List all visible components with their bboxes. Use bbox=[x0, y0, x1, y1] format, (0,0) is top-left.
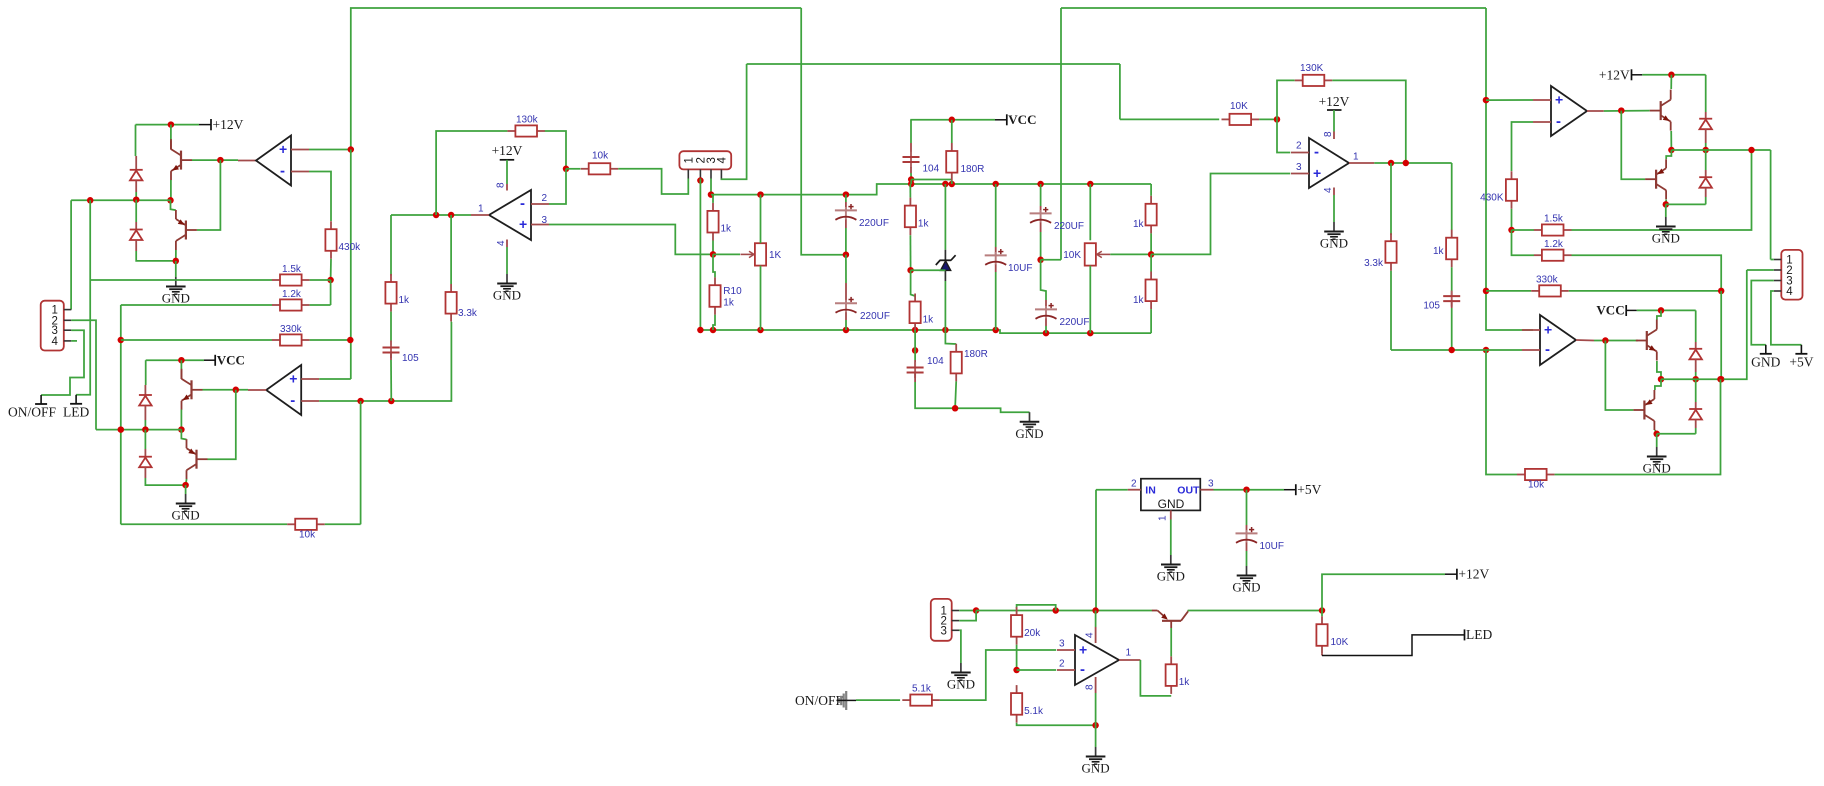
transistor Q6 bbox=[1645, 159, 1666, 199]
diode D6 bbox=[1699, 177, 1712, 188]
wire bbox=[1140, 660, 1171, 696]
svg-text:4: 4 bbox=[1084, 632, 1095, 638]
svg-text:180R: 180R bbox=[961, 164, 985, 175]
resistor 3.3k bbox=[446, 284, 478, 322]
op-amp U2A bbox=[489, 190, 549, 240]
capacitor 220UF lead bbox=[845, 202, 847, 210]
ground bbox=[1015, 412, 1043, 441]
capacitor 220UF bbox=[835, 204, 889, 229]
wire bbox=[330, 259, 332, 280]
junction bbox=[843, 251, 850, 258]
wire bbox=[185, 485, 187, 494]
wire bbox=[915, 382, 1029, 412]
svg-text:105: 105 bbox=[1423, 301, 1440, 312]
wire bbox=[856, 699, 900, 701]
resistor 180R bbox=[946, 143, 957, 181]
ground bbox=[1643, 447, 1671, 476]
wire bbox=[909, 184, 911, 198]
diode D5 lead bbox=[1705, 129, 1707, 143]
junction bbox=[1388, 160, 1395, 167]
wire bbox=[135, 192, 137, 200]
diode D6 lead bbox=[1705, 170, 1707, 177]
transistor Q5 bbox=[1650, 90, 1671, 131]
resistor 1k bbox=[905, 198, 930, 236]
svg-text:1k: 1k bbox=[721, 224, 733, 235]
wire bbox=[171, 200, 176, 210]
op-amp U1B output lead bbox=[248, 389, 266, 391]
svg-text:VCC: VCC bbox=[1596, 302, 1624, 317]
wire bbox=[41, 330, 84, 395]
junction bbox=[912, 347, 919, 354]
resistor 20k bbox=[1011, 607, 1041, 645]
wire bbox=[1321, 611, 1323, 617]
diode D4 lead bbox=[144, 449, 146, 457]
junction bbox=[168, 121, 175, 128]
op-amp U2A pin labels bbox=[478, 193, 548, 226]
capacitor 105 bbox=[383, 342, 420, 364]
wire bbox=[1150, 309, 1152, 333]
wire bbox=[1605, 341, 1633, 411]
resistor 1k bbox=[1146, 196, 1157, 234]
ground bbox=[1082, 747, 1110, 776]
transistor Q3 collector bbox=[180, 371, 182, 380]
resistor 1k bbox=[910, 294, 935, 332]
diode D7 bbox=[1689, 349, 1702, 360]
wire bbox=[545, 131, 566, 169]
wire bbox=[1770, 150, 1772, 260]
svg-text:+12V: +12V bbox=[1458, 567, 1489, 582]
capacitor 220UF lead bbox=[845, 312, 847, 320]
ground bbox=[162, 277, 190, 306]
wire bbox=[121, 304, 272, 306]
wire bbox=[1486, 8, 1533, 330]
junction bbox=[1748, 147, 1755, 154]
wire bbox=[1391, 349, 1522, 351]
wire bbox=[180, 360, 182, 370]
net flag +12V bbox=[199, 117, 244, 132]
capacitor 105 lead bbox=[390, 353, 392, 361]
wire bbox=[1747, 269, 1774, 271]
wire bbox=[90, 279, 272, 281]
wire bbox=[1511, 209, 1513, 230]
junction bbox=[178, 426, 185, 433]
wire bbox=[1486, 99, 1533, 101]
wire bbox=[1096, 489, 1128, 491]
op-amp U1B + input wire bbox=[319, 378, 351, 380]
svg-text:1.2k: 1.2k bbox=[282, 289, 302, 300]
wire bbox=[192, 159, 238, 161]
junction bbox=[942, 181, 949, 188]
wire bbox=[1040, 184, 1042, 206]
svg-text:GND: GND bbox=[1082, 761, 1110, 776]
wire bbox=[1170, 520, 1172, 556]
svg-text:20k: 20k bbox=[1024, 628, 1041, 639]
resistor 180R bbox=[951, 344, 962, 382]
wire bbox=[96, 429, 181, 431]
svg-text:3: 3 bbox=[542, 215, 548, 226]
wire bbox=[1572, 255, 1722, 291]
svg-text:220UF: 220UF bbox=[1054, 221, 1084, 232]
op-amp U1A - input wire bbox=[309, 172, 331, 222]
junction bbox=[1319, 607, 1326, 614]
svg-text:VCC: VCC bbox=[1008, 112, 1036, 127]
label 10K bbox=[1331, 637, 1349, 648]
wire bbox=[1661, 270, 1747, 379]
wire bbox=[1390, 271, 1392, 350]
svg-text:1: 1 bbox=[1126, 648, 1132, 659]
op-amp U3A output lead bbox=[1587, 110, 1604, 112]
wire bbox=[1089, 184, 1091, 240]
junction bbox=[1037, 257, 1044, 264]
op-amp U5 output lead bbox=[1119, 659, 1140, 661]
wire bbox=[1095, 725, 1097, 747]
diode D7 lead bbox=[1695, 359, 1697, 372]
wire bbox=[911, 269, 946, 271]
junction bbox=[697, 327, 704, 334]
junction bbox=[949, 181, 956, 188]
junction bbox=[357, 398, 364, 405]
op-amp U5 pin 8 bbox=[1084, 677, 1095, 693]
junction bbox=[1092, 607, 1099, 614]
svg-text:4: 4 bbox=[1323, 187, 1334, 193]
transistor Q1 collector bbox=[170, 141, 172, 150]
wire bbox=[1150, 184, 1152, 196]
diode D6 lead bbox=[1705, 188, 1707, 197]
svg-text:+: + bbox=[1313, 165, 1321, 181]
wire bbox=[618, 169, 688, 194]
svg-text:+12V: +12V bbox=[492, 143, 523, 158]
svg-text:3.3k: 3.3k bbox=[458, 308, 478, 319]
wire bbox=[914, 330, 916, 350]
svg-text:GND: GND bbox=[1652, 231, 1680, 246]
resistor 130k bbox=[507, 115, 545, 137]
resistor 5.1k bbox=[1011, 685, 1044, 723]
svg-text:GND: GND bbox=[493, 288, 521, 303]
regulator U4 bbox=[1128, 479, 1214, 522]
wire bbox=[1045, 326, 1047, 333]
svg-text:180R: 180R bbox=[964, 349, 988, 360]
wire bbox=[910, 119, 995, 121]
junction bbox=[1718, 288, 1725, 295]
ground bbox=[172, 494, 200, 523]
junction bbox=[697, 177, 704, 184]
junction bbox=[757, 191, 764, 198]
net flag +12V bbox=[492, 143, 523, 160]
svg-text:-: - bbox=[1556, 113, 1561, 130]
wire bbox=[1695, 310, 1697, 342]
junction bbox=[1043, 330, 1050, 337]
label 1k bbox=[1133, 219, 1145, 230]
diode D5 lead bbox=[1705, 112, 1707, 119]
wire bbox=[1695, 379, 1697, 402]
svg-text:+12V: +12V bbox=[1599, 67, 1630, 82]
diode D1 lead bbox=[135, 180, 137, 192]
wire bbox=[1666, 203, 1706, 205]
junction bbox=[1668, 147, 1675, 154]
svg-text:10UF: 10UF bbox=[1008, 263, 1032, 274]
svg-text:4: 4 bbox=[1786, 286, 1793, 298]
ground bbox=[1320, 222, 1348, 251]
wire bbox=[506, 160, 508, 184]
svg-text:4: 4 bbox=[52, 336, 59, 348]
svg-text:1k: 1k bbox=[723, 298, 735, 309]
diode D3 lead bbox=[144, 406, 146, 421]
wire bbox=[1555, 379, 1721, 474]
svg-text:5.1k: 5.1k bbox=[912, 684, 932, 695]
capacitor 10UF lead bbox=[1246, 525, 1248, 533]
junction bbox=[1692, 376, 1699, 383]
wire bbox=[1150, 233, 1152, 254]
svg-text:1K: 1K bbox=[769, 250, 782, 261]
wire bbox=[955, 381, 956, 408]
op-amp U2B pin 4 bbox=[1323, 187, 1334, 195]
diode D2 lead bbox=[135, 222, 137, 230]
label 10k bbox=[299, 530, 316, 541]
wire 1.5k riser bbox=[76, 200, 90, 394]
wire bbox=[910, 120, 912, 143]
wire bbox=[1512, 229, 1535, 231]
capacitor 220UF lead bbox=[1045, 319, 1047, 327]
zener diode Z1 bbox=[936, 250, 956, 281]
wire bbox=[1170, 628, 1172, 656]
capacitor 10UF bbox=[1236, 527, 1284, 552]
ground bbox=[1157, 555, 1185, 584]
svg-text:1k: 1k bbox=[1133, 219, 1145, 230]
diode D8 bbox=[1689, 409, 1702, 420]
junction bbox=[1663, 201, 1670, 208]
svg-text:GND: GND bbox=[1751, 354, 1780, 369]
wire bbox=[1720, 291, 1722, 379]
resistor 10K bbox=[1222, 101, 1260, 125]
capacitor 220UF lead bbox=[1045, 300, 1047, 309]
wire bbox=[1771, 291, 1802, 345]
capacitor 220UF lead bbox=[1040, 223, 1042, 233]
svg-text:LED: LED bbox=[63, 404, 89, 419]
resistor 330k bbox=[272, 324, 310, 346]
wire bbox=[136, 251, 176, 261]
svg-text:-: - bbox=[1545, 341, 1550, 358]
junction bbox=[1483, 347, 1490, 354]
diode D8 lead bbox=[1695, 420, 1697, 429]
op-amp U3B bbox=[1522, 315, 1576, 365]
wire bbox=[121, 523, 287, 525]
junction bbox=[347, 337, 354, 344]
capacitor 10UF lead bbox=[995, 247, 997, 255]
wire bbox=[1089, 266, 1091, 334]
junction bbox=[843, 191, 850, 198]
svg-text:-: - bbox=[280, 163, 285, 180]
svg-text:IN: IN bbox=[1145, 485, 1156, 497]
net flag VCC bbox=[995, 112, 1036, 127]
wire bbox=[801, 8, 846, 255]
wire bbox=[1061, 7, 1486, 9]
wire bbox=[1095, 693, 1097, 725]
op-amp U2B - input wire bbox=[1277, 119, 1290, 152]
resistor 1k bbox=[1166, 656, 1191, 694]
junction bbox=[1483, 288, 1490, 295]
wire bbox=[1016, 645, 1018, 670]
resistor 430K bbox=[1506, 171, 1517, 209]
transistor Q4 bbox=[187, 439, 208, 479]
wire bbox=[330, 280, 332, 305]
wire bbox=[1150, 254, 1152, 271]
op-amp U1A output lead bbox=[238, 160, 256, 162]
transistor Q9 bbox=[1152, 611, 1188, 629]
capacitor 10UF lead bbox=[995, 265, 997, 273]
svg-text:-: - bbox=[1314, 144, 1319, 161]
wire bbox=[713, 253, 740, 255]
wire bbox=[566, 168, 580, 170]
junction bbox=[1702, 147, 1709, 154]
net flag LED bbox=[1453, 627, 1492, 642]
wire bbox=[1486, 350, 1517, 475]
wire bbox=[136, 124, 200, 126]
wire bbox=[1451, 308, 1453, 350]
junction bbox=[388, 398, 395, 405]
wire bbox=[995, 272, 997, 330]
label 1k bbox=[1133, 295, 1145, 306]
svg-text:3: 3 bbox=[1296, 162, 1302, 173]
op-amp U3B output lead bbox=[1576, 339, 1594, 342]
junction bbox=[1403, 160, 1410, 167]
junction bbox=[908, 176, 915, 183]
junction bbox=[1653, 431, 1660, 438]
svg-text:-: - bbox=[520, 195, 525, 212]
svg-text:10K: 10K bbox=[1331, 637, 1349, 648]
wire bbox=[760, 266, 762, 330]
resistor 1k bbox=[385, 274, 410, 312]
resistor 1.2k bbox=[1534, 239, 1572, 261]
op-amp U1B - input wire bbox=[319, 322, 451, 401]
junction bbox=[908, 181, 915, 188]
svg-text:ON/OFF: ON/OFF bbox=[795, 693, 844, 708]
wire bbox=[1060, 8, 1062, 260]
wire bbox=[144, 420, 146, 430]
svg-text:10UF: 10UF bbox=[1260, 541, 1284, 552]
net flag VCC bbox=[1596, 302, 1636, 317]
svg-text:1.5k: 1.5k bbox=[1544, 214, 1564, 225]
svg-text:4: 4 bbox=[716, 157, 728, 164]
wire bbox=[760, 195, 762, 244]
wire bbox=[1642, 74, 1705, 76]
capacitor 104 lead bbox=[910, 167, 912, 173]
svg-text:GND: GND bbox=[1015, 426, 1043, 441]
capacitor 104 lead bbox=[914, 373, 916, 383]
wire bbox=[1451, 267, 1453, 293]
junction bbox=[1243, 486, 1250, 493]
svg-text:430K: 430K bbox=[1480, 193, 1504, 204]
junction bbox=[907, 267, 914, 274]
label 3.3k bbox=[1364, 258, 1384, 269]
junction bbox=[1483, 97, 1490, 104]
op-amp U2A pin 4 bbox=[496, 240, 507, 248]
svg-text:130k: 130k bbox=[516, 115, 539, 126]
svg-text:1: 1 bbox=[1353, 152, 1359, 163]
svg-text:+: + bbox=[1544, 322, 1552, 338]
op-amp U2A - input wire bbox=[549, 169, 566, 204]
wire bbox=[713, 254, 715, 277]
ground bbox=[1652, 217, 1680, 246]
svg-text:GND: GND bbox=[172, 508, 200, 523]
ground bbox=[493, 274, 521, 303]
label 104 bbox=[927, 356, 944, 367]
wire bbox=[135, 200, 137, 222]
svg-text:105: 105 bbox=[402, 353, 419, 364]
wire bbox=[1604, 110, 1650, 112]
label 180R bbox=[961, 164, 985, 175]
wire bbox=[1110, 253, 1151, 255]
wire bbox=[1390, 163, 1392, 235]
junction bbox=[1092, 722, 1099, 729]
svg-text:1k: 1k bbox=[399, 295, 411, 306]
wire bbox=[144, 430, 146, 449]
wire bbox=[181, 430, 186, 440]
resistor 10K bbox=[1316, 616, 1327, 654]
junction bbox=[233, 387, 240, 394]
wire bbox=[1705, 143, 1707, 150]
junction bbox=[708, 191, 715, 198]
resistor R10 bbox=[709, 277, 720, 315]
wire bbox=[1705, 75, 1707, 112]
wire bbox=[203, 389, 249, 391]
wire bbox=[995, 184, 997, 247]
svg-text:104: 104 bbox=[923, 164, 940, 175]
svg-text:+12V: +12V bbox=[213, 117, 244, 132]
wire bbox=[1655, 379, 1661, 390]
svg-text:OUT: OUT bbox=[1177, 484, 1200, 496]
svg-text:220UF: 220UF bbox=[860, 311, 890, 322]
wire bbox=[976, 610, 1152, 612]
op-amp U3A - input wire bbox=[1512, 122, 1534, 171]
svg-text:GND: GND bbox=[1320, 236, 1348, 251]
capacitor 220UF lead bbox=[1040, 206, 1042, 213]
wire bbox=[910, 173, 912, 180]
capacitor 105 lead bbox=[390, 341, 392, 346]
wire bbox=[1120, 118, 1219, 120]
wire bbox=[1670, 75, 1672, 89]
resistor 3.3k bbox=[1385, 233, 1396, 271]
junction bbox=[118, 337, 125, 344]
wire bbox=[170, 180, 172, 200]
wire bbox=[145, 478, 185, 485]
wire bbox=[1119, 64, 1121, 119]
svg-text:2: 2 bbox=[1059, 659, 1065, 670]
svg-text:1.2k: 1.2k bbox=[1544, 239, 1564, 250]
capacitor 10UF bbox=[985, 249, 1033, 274]
junction bbox=[1508, 227, 1515, 234]
wire bbox=[721, 64, 746, 179]
wire bbox=[351, 8, 801, 150]
junction bbox=[992, 181, 999, 188]
label 430K bbox=[1480, 193, 1504, 204]
op-amp U1A bbox=[256, 136, 309, 186]
capacitor 220UF bbox=[1030, 207, 1084, 232]
resistor 1k bbox=[1146, 272, 1157, 310]
wire bbox=[951, 120, 953, 143]
port +5V bbox=[1789, 345, 1813, 370]
wire bbox=[1655, 430, 1657, 434]
junction bbox=[348, 146, 355, 153]
resistor 10K lead bbox=[1321, 654, 1323, 656]
junction bbox=[1658, 376, 1665, 383]
capacitor 220UF bbox=[1035, 303, 1090, 328]
wire bbox=[135, 125, 137, 156]
wire bbox=[1041, 260, 1046, 300]
wire bbox=[1246, 490, 1248, 525]
junction bbox=[1274, 116, 1281, 123]
wire bbox=[310, 279, 331, 281]
resistor 10k bbox=[287, 519, 325, 530]
